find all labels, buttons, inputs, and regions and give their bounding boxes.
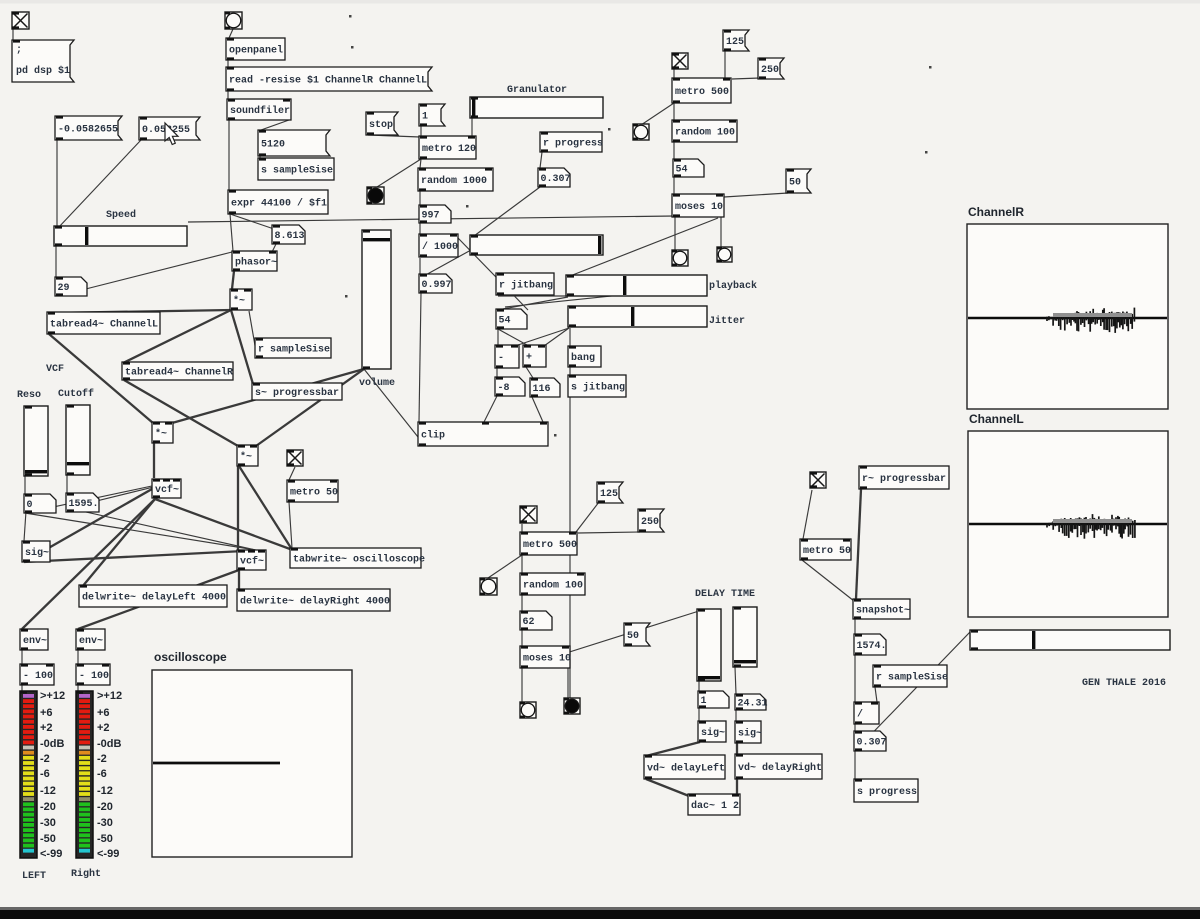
svg-text:*~: *~ — [240, 451, 252, 463]
svg-text:tabread4~ ChannelR: tabread4~ ChannelR — [125, 367, 233, 379]
svg-text:r jitbang: r jitbang — [499, 280, 553, 292]
svg-text:openpanel: openpanel — [229, 45, 283, 57]
svg-text:GEN THALE 2016: GEN THALE 2016 — [1082, 678, 1166, 689]
svg-text:delwrite~ delayLeft 4000: delwrite~ delayLeft 4000 — [82, 592, 226, 604]
svg-text:-0dB: -0dB — [40, 738, 65, 750]
svg-text:1: 1 — [422, 112, 428, 123]
svg-text:soundfiler: soundfiler — [230, 105, 290, 117]
svg-text:116: 116 — [533, 384, 551, 395]
svg-text:ChannelL: ChannelL — [969, 412, 1024, 426]
svg-text:0: 0 — [27, 500, 33, 511]
svg-text:+: + — [526, 353, 532, 364]
svg-text:Right: Right — [71, 868, 101, 880]
svg-text:env~: env~ — [79, 636, 103, 647]
svg-text:Granulator: Granulator — [507, 84, 567, 96]
svg-text:50: 50 — [627, 631, 639, 642]
svg-text:dac~ 1 2: dac~ 1 2 — [691, 800, 739, 812]
svg-text:125: 125 — [600, 489, 618, 500]
svg-text:-2: -2 — [97, 753, 107, 765]
svg-text:-30: -30 — [97, 817, 113, 829]
svg-text:VCF: VCF — [46, 364, 64, 375]
svg-text:<-99: <-99 — [40, 848, 62, 860]
svg-text:vd~ delayRight: vd~ delayRight — [738, 762, 822, 774]
svg-text:vd~ delayLeft: vd~ delayLeft — [647, 763, 725, 775]
svg-text:-20: -20 — [97, 801, 113, 813]
svg-text:metro 120: metro 120 — [422, 144, 476, 155]
svg-text:- 100: - 100 — [23, 671, 53, 682]
svg-text:-6: -6 — [97, 768, 107, 780]
svg-text:1595.: 1595. — [69, 499, 99, 510]
svg-text:clip: clip — [421, 430, 445, 442]
svg-text:s progress: s progress — [857, 787, 917, 798]
svg-text:vcf~: vcf~ — [155, 484, 179, 496]
svg-text:250: 250 — [641, 517, 659, 528]
svg-text:54: 54 — [676, 165, 688, 176]
svg-text:-50: -50 — [40, 833, 56, 845]
svg-text:random 100: random 100 — [675, 127, 735, 139]
svg-text:+6: +6 — [40, 707, 53, 719]
svg-text:-12: -12 — [97, 785, 113, 797]
svg-text:-12: -12 — [40, 785, 56, 797]
svg-text:sig~: sig~ — [701, 727, 725, 739]
svg-text:stop: stop — [369, 120, 393, 131]
svg-text:oscilloscope: oscilloscope — [154, 650, 227, 664]
svg-text:s jitbang: s jitbang — [571, 382, 625, 394]
svg-text:read -resise $1 ChannelR Chann: read -resise $1 ChannelR ChannelL — [229, 75, 427, 87]
svg-text:-20: -20 — [40, 801, 56, 813]
svg-text:tabwrite~ oscilloscope: tabwrite~ oscilloscope — [293, 554, 425, 566]
svg-text:-: - — [498, 353, 504, 364]
svg-text:sig~: sig~ — [25, 547, 49, 559]
svg-text:LEFT: LEFT — [22, 871, 46, 882]
svg-text:0.997: 0.997 — [422, 280, 452, 291]
svg-text:- 100: - 100 — [79, 671, 109, 682]
svg-text:0.307: 0.307 — [541, 174, 571, 185]
svg-text:-30: -30 — [40, 817, 56, 829]
svg-text:s~ progressbar: s~ progressbar — [255, 387, 339, 399]
svg-text:-8: -8 — [498, 383, 510, 394]
svg-text:>+12: >+12 — [97, 690, 122, 702]
svg-text:-2: -2 — [40, 753, 50, 765]
svg-text:r~ progressbar: r~ progressbar — [862, 473, 946, 485]
svg-text:<-99: <-99 — [97, 848, 119, 860]
svg-text:metro 50: metro 50 — [803, 546, 851, 557]
svg-text:metro 50: metro 50 — [290, 488, 338, 499]
svg-text:Speed: Speed — [106, 209, 136, 221]
svg-text:50: 50 — [789, 178, 801, 189]
svg-text:phasor~: phasor~ — [235, 257, 277, 269]
svg-text:+2: +2 — [40, 722, 53, 734]
svg-text:+2: +2 — [97, 722, 110, 734]
svg-text:*~: *~ — [155, 428, 167, 440]
svg-text:DELAY TIME: DELAY TIME — [695, 589, 755, 600]
svg-text:metro 500: metro 500 — [675, 87, 729, 98]
svg-text:-0dB: -0dB — [97, 738, 122, 750]
svg-text:r sampleSise: r sampleSise — [876, 672, 948, 684]
svg-text:0.307: 0.307 — [857, 738, 887, 749]
svg-text:/: / — [857, 709, 863, 721]
svg-text:Cutoff: Cutoff — [58, 388, 94, 400]
svg-text:r sampleSise: r sampleSise — [258, 344, 330, 356]
svg-text:*~: *~ — [233, 295, 245, 307]
svg-text:s sampleSise: s sampleSise — [261, 165, 333, 177]
svg-text:snapshot~: snapshot~ — [856, 605, 910, 617]
svg-text:ChannelR: ChannelR — [968, 205, 1024, 219]
svg-text:sig~: sig~ — [738, 728, 762, 740]
svg-text:random 100: random 100 — [523, 580, 583, 592]
svg-text:env~: env~ — [23, 636, 47, 647]
svg-text:-0.0582655: -0.0582655 — [58, 125, 118, 136]
svg-text:delwrite~ delayRight 4000: delwrite~ delayRight 4000 — [240, 596, 390, 608]
svg-text:997: 997 — [422, 211, 440, 222]
svg-text:bang: bang — [571, 352, 595, 364]
svg-text:/ 1000: / 1000 — [422, 241, 458, 253]
svg-text:1574.: 1574. — [857, 641, 887, 652]
svg-text:;: ; — [16, 45, 22, 56]
svg-text:expr 44100 / $f1: expr 44100 / $f1 — [231, 198, 327, 210]
svg-text:8.613: 8.613 — [275, 231, 305, 242]
svg-text:volume: volume — [359, 377, 395, 389]
svg-text:random 1000: random 1000 — [421, 175, 487, 187]
svg-text:tabread4~ ChannelL: tabread4~ ChannelL — [50, 319, 158, 331]
svg-text:-50: -50 — [97, 833, 113, 845]
svg-text:54: 54 — [499, 316, 511, 327]
svg-text:250: 250 — [761, 65, 779, 76]
svg-text:-6: -6 — [40, 768, 50, 780]
svg-text:1: 1 — [701, 696, 707, 707]
svg-text:pd dsp $1: pd dsp $1 — [16, 65, 70, 77]
svg-text:playback: playback — [709, 280, 757, 292]
svg-text:24.31: 24.31 — [738, 699, 768, 710]
svg-text:Reso: Reso — [17, 390, 41, 401]
svg-text:moses 10: moses 10 — [675, 202, 723, 213]
svg-text:125: 125 — [726, 37, 744, 48]
svg-text:>+12: >+12 — [40, 690, 65, 702]
svg-text:r progress: r progress — [543, 139, 603, 150]
svg-text:+6: +6 — [97, 707, 110, 719]
svg-text:metro 500: metro 500 — [523, 540, 577, 551]
svg-text:vcf~: vcf~ — [240, 556, 264, 568]
svg-text:29: 29 — [58, 283, 70, 294]
svg-text:Jitter: Jitter — [709, 315, 745, 327]
svg-text:5120: 5120 — [261, 140, 285, 151]
svg-text:62: 62 — [523, 617, 535, 628]
svg-text:moses 10: moses 10 — [523, 654, 571, 665]
